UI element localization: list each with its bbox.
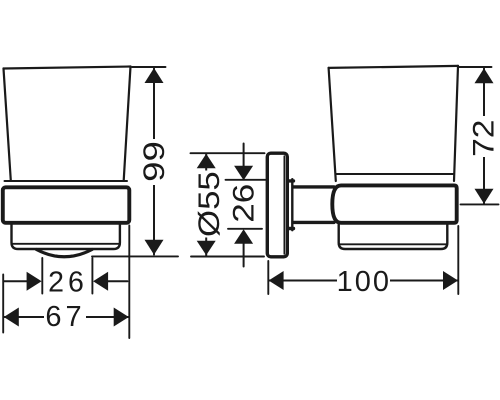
cup side rim line <box>337 173 454 175</box>
svg-text:26: 26 <box>226 184 260 223</box>
cup front view top edge <box>4 67 131 69</box>
svg-text:100: 100 <box>337 266 391 298</box>
holder ring side view <box>332 185 456 222</box>
cup rim line above holder <box>5 180 128 182</box>
dim 26 right arrow down <box>234 166 253 181</box>
arm bottom edge <box>294 221 335 224</box>
wall plate face line <box>283 156 285 254</box>
holder ring front view <box>3 187 130 223</box>
dim Ø55 extension top <box>191 152 265 154</box>
dim 67 line <box>4 316 128 318</box>
dim Ø55 extension bottom <box>191 256 264 258</box>
dim 26 left: extension lines <box>42 258 92 294</box>
dim 100 extension left <box>267 261 269 294</box>
dim 100 arrow right <box>443 271 458 290</box>
dim 72 extension bottom <box>461 203 499 205</box>
svg-text:67: 67 <box>45 301 85 333</box>
dim 26 left: leader + arrow left <box>4 280 28 282</box>
wall plate side view <box>267 153 287 257</box>
glass inner bottom chord side view <box>339 243 448 245</box>
dim 100 line <box>269 280 458 282</box>
glass lower part front view <box>12 225 120 250</box>
dim 99 extension line top <box>132 66 166 68</box>
dim 72 line <box>483 69 485 204</box>
dim 26 right tail top <box>243 144 245 168</box>
svg-text:72: 72 <box>466 120 500 157</box>
arm top edge <box>294 185 335 188</box>
dim Ø55 line <box>205 154 207 256</box>
boss top edge <box>289 179 294 182</box>
dim 26 left: leader + arrow right <box>108 280 128 282</box>
dim 72 extension top <box>459 66 492 68</box>
dim 99 extension line bottom <box>92 255 178 257</box>
dim 72 arrow down <box>475 189 494 204</box>
dim 100 text <box>337 265 390 297</box>
boss bottom edge <box>289 227 294 230</box>
dim 99 arrow down <box>145 240 164 255</box>
svg-text:99: 99 <box>138 141 171 182</box>
dim 26 right arrow up <box>234 229 253 244</box>
cup side view right side <box>454 66 458 181</box>
dim 67 extension lines <box>3 226 129 339</box>
dim Ø55 arrow up <box>197 154 216 169</box>
glass base bulge <box>37 250 93 257</box>
svg-text:26: 26 <box>48 266 88 298</box>
dim Ø55 arrow down <box>197 241 216 256</box>
dim 99 text <box>142 139 168 185</box>
dim 99 arrow up <box>145 68 164 83</box>
cup side view left side <box>329 68 336 181</box>
boss right edge <box>291 179 293 230</box>
dim 72 text <box>471 116 498 157</box>
svg-text:Ø55: Ø55 <box>192 171 225 237</box>
dim 100 arrow left <box>269 271 284 290</box>
dim 26 right extension lines <box>226 180 266 229</box>
glass inner bottom chord <box>12 243 120 245</box>
dim 67 text <box>44 300 86 333</box>
dim 99 line <box>153 69 155 255</box>
dim 100 extension right <box>457 226 459 294</box>
dim 72 arrow up <box>475 68 494 83</box>
dim 26 right text <box>228 184 254 227</box>
glass lower part side view <box>339 225 448 250</box>
cup front view right side <box>124 67 131 181</box>
dim 26 right tail bottom <box>243 242 245 266</box>
dim 67 arrow right <box>114 308 129 327</box>
cup side view top edge <box>329 66 458 68</box>
cup front view left side <box>4 69 11 181</box>
dim Ø55 text <box>194 171 222 238</box>
dim 67 arrow left <box>4 308 19 327</box>
